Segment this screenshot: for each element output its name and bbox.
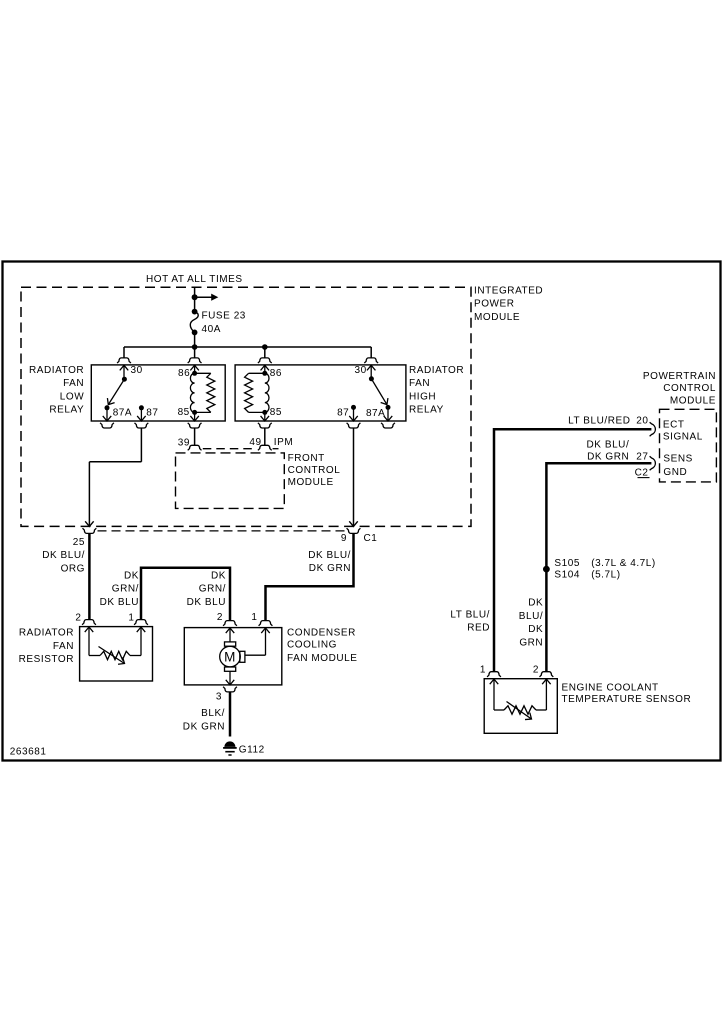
svg-text:ORG: ORG (61, 564, 85, 575)
svg-text:(3.7L & 4.7L): (3.7L & 4.7L) (591, 558, 656, 569)
svg-text:MODULE: MODULE (288, 477, 334, 488)
svg-text:MODULE: MODULE (474, 312, 520, 323)
svg-text:FAN: FAN (63, 378, 84, 389)
svg-text:DK: DK (124, 570, 139, 581)
svg-text:3: 3 (216, 692, 222, 703)
svg-text:MODULE: MODULE (670, 395, 716, 406)
svg-text:DK GRN: DK GRN (309, 563, 351, 574)
svg-text:GRN/: GRN/ (199, 584, 226, 595)
svg-text:DK BLU/: DK BLU/ (587, 440, 630, 451)
svg-text:RADIATOR: RADIATOR (29, 365, 84, 376)
svg-text:G112: G112 (239, 744, 265, 755)
svg-text:FRONT: FRONT (288, 453, 325, 464)
svg-text:HOT AT ALL TIMES: HOT AT ALL TIMES (146, 274, 243, 285)
svg-text:RED: RED (467, 623, 490, 634)
svg-text:85: 85 (270, 407, 282, 418)
svg-text:FAN: FAN (409, 378, 430, 389)
svg-text:DK: DK (528, 624, 543, 635)
svg-text:87: 87 (337, 407, 349, 418)
svg-text:DK: DK (528, 597, 543, 608)
svg-text:COOLING: COOLING (287, 640, 337, 651)
svg-text:S105: S105 (554, 558, 580, 569)
svg-text:DK GRN: DK GRN (183, 721, 225, 732)
svg-text:BLU/: BLU/ (519, 611, 543, 622)
svg-text:INTEGRATED: INTEGRATED (474, 286, 543, 297)
svg-text:2: 2 (75, 613, 81, 624)
svg-text:ECT: ECT (663, 419, 685, 430)
svg-text:LOW: LOW (60, 391, 84, 402)
svg-text:LT BLU/RED: LT BLU/RED (568, 416, 630, 427)
svg-text:87A: 87A (366, 408, 385, 419)
svg-text:GND: GND (663, 467, 687, 478)
svg-text:DK BLU/: DK BLU/ (308, 550, 351, 561)
svg-text:263681: 263681 (10, 746, 47, 757)
svg-text:87: 87 (146, 407, 158, 418)
svg-text:30: 30 (354, 365, 366, 376)
svg-text:40A: 40A (202, 324, 221, 335)
svg-text:2: 2 (533, 664, 539, 675)
svg-text:20: 20 (636, 416, 648, 427)
svg-text:87A: 87A (113, 408, 132, 419)
svg-text:RADIATOR: RADIATOR (19, 628, 74, 639)
svg-text:49: 49 (249, 437, 261, 448)
svg-text:27: 27 (636, 452, 648, 463)
svg-text:M: M (224, 649, 236, 664)
svg-text:86: 86 (178, 368, 190, 379)
svg-text:ENGINE COOLANT: ENGINE COOLANT (562, 683, 659, 694)
svg-text:25: 25 (73, 537, 85, 548)
svg-text:DK BLU: DK BLU (187, 597, 226, 608)
svg-text:(5.7L): (5.7L) (591, 569, 620, 580)
svg-text:1: 1 (480, 664, 486, 675)
svg-text:DK: DK (211, 570, 226, 581)
svg-text:HIGH: HIGH (409, 391, 436, 402)
svg-text:DK BLU: DK BLU (100, 597, 139, 608)
svg-text:TEMPERATURE SENSOR: TEMPERATURE SENSOR (562, 694, 692, 705)
svg-text:IPM: IPM (274, 437, 293, 448)
svg-text:CONTROL: CONTROL (663, 383, 716, 394)
svg-text:S104: S104 (554, 569, 580, 580)
svg-text:FUSE 23: FUSE 23 (202, 310, 246, 321)
svg-text:GRN/: GRN/ (112, 584, 139, 595)
svg-text:2: 2 (217, 612, 223, 623)
svg-text:30: 30 (131, 365, 143, 376)
svg-text:RESISTOR: RESISTOR (19, 654, 74, 665)
svg-text:SIGNAL: SIGNAL (663, 431, 703, 442)
svg-text:GRN: GRN (519, 638, 543, 649)
svg-text:RADIATOR: RADIATOR (409, 365, 464, 376)
svg-text:C1: C1 (364, 533, 378, 544)
svg-text:FAN: FAN (53, 641, 74, 652)
svg-text:FAN MODULE: FAN MODULE (287, 653, 358, 664)
svg-text:85: 85 (178, 407, 190, 418)
svg-text:1: 1 (251, 612, 257, 623)
svg-text:BLK/: BLK/ (201, 708, 225, 719)
svg-text:RELAY: RELAY (409, 405, 444, 416)
svg-text:9: 9 (341, 533, 347, 544)
svg-text:C2: C2 (635, 467, 649, 478)
svg-text:LT BLU/: LT BLU/ (450, 609, 490, 620)
svg-text:1: 1 (128, 613, 134, 624)
svg-text:39: 39 (178, 437, 190, 448)
svg-text:POWER: POWER (474, 299, 515, 310)
svg-text:DK GRN: DK GRN (587, 452, 629, 463)
svg-text:RELAY: RELAY (49, 405, 84, 416)
svg-text:SENS: SENS (663, 453, 692, 464)
svg-text:CONTROL: CONTROL (288, 465, 341, 476)
svg-text:86: 86 (270, 368, 282, 379)
svg-text:DK BLU/: DK BLU/ (42, 550, 85, 561)
svg-text:CONDENSER: CONDENSER (287, 627, 356, 638)
svg-text:POWERTRAIN: POWERTRAIN (643, 371, 716, 382)
